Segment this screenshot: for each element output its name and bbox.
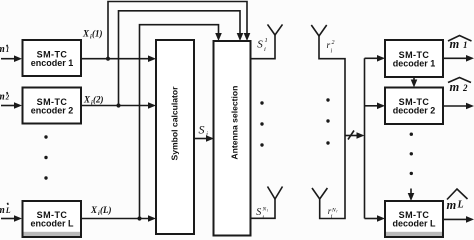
svg-text:m: m xyxy=(447,198,457,212)
SM-TC decoder L box xyxy=(385,201,443,237)
svg-text:m: m xyxy=(450,37,460,51)
node junction on line 1 xyxy=(106,57,110,61)
SM-TC encoder 2 box xyxy=(23,88,82,124)
svg-text:L: L xyxy=(5,206,11,215)
wire decoder1 to decoder2 arrow xyxy=(413,77,415,82)
wire antenna selection output Nt xyxy=(251,199,276,218)
Antenna selection box xyxy=(214,41,251,236)
svg-text:(2): (2) xyxy=(93,95,104,105)
svg-text:X: X xyxy=(83,95,91,105)
svg-text:N: N xyxy=(262,207,267,213)
wire encoder 1 output to symbol calculator xyxy=(81,58,150,60)
svg-text:L: L xyxy=(457,200,464,211)
svg-text:m: m xyxy=(450,80,460,94)
svg-text:Symbol calculator: Symbol calculator xyxy=(170,86,180,161)
ellipsis dots Rx xyxy=(326,98,329,101)
svg-text:decoder 1: decoder 1 xyxy=(393,59,436,69)
svg-text:r: r xyxy=(336,209,338,214)
wire distribution vertical xyxy=(364,58,366,218)
svg-text:decoder 2: decoder 2 xyxy=(393,106,436,116)
SM-TC encoder 1 box xyxy=(23,40,82,76)
label m2 hat output xyxy=(448,78,471,83)
antenna Rx Nr xyxy=(312,188,327,199)
antenna Tx Nt xyxy=(268,187,283,200)
wire antenna selection output 1 xyxy=(251,35,276,59)
SM-TC decoder 1 box xyxy=(385,40,443,77)
SM-TC decoder 2 box xyxy=(385,88,443,125)
wire decoder 2 output arrow xyxy=(443,105,468,107)
wire input arrow to encoder L xyxy=(1,218,16,220)
wire decoder L output arrow xyxy=(443,218,468,220)
SM-TC encoder L box xyxy=(23,201,82,237)
svg-text:i: i xyxy=(331,49,333,55)
node junction on line L xyxy=(137,216,141,220)
svg-text:(L): (L) xyxy=(100,205,112,215)
svg-text:1: 1 xyxy=(463,40,468,50)
wire encoder L output to symbol calculator xyxy=(81,218,150,220)
svg-text:Antenna selection: Antenna selection xyxy=(229,86,239,160)
svg-text:encoder L: encoder L xyxy=(30,219,74,229)
svg-text:m: m xyxy=(0,205,5,216)
wire arrow into decoder L top xyxy=(410,189,412,196)
Symbol calculator box xyxy=(156,40,194,234)
wire routed tap from line 1 over the top to antenna selection xyxy=(108,2,247,59)
node junction on line 2 xyxy=(116,103,120,107)
svg-text:2: 2 xyxy=(462,83,468,93)
ellipsis dots decoder column xyxy=(410,133,413,136)
svg-text:m: m xyxy=(0,92,5,103)
wire branch to decoder 2 xyxy=(365,105,380,107)
svg-text:i: i xyxy=(264,46,266,53)
svg-text:encoder 2: encoder 2 xyxy=(31,106,74,116)
svg-text:m: m xyxy=(0,44,5,55)
svg-text:S: S xyxy=(257,39,263,51)
wire input arrow to encoder 2 xyxy=(1,105,16,107)
svg-text:N: N xyxy=(331,208,336,214)
svg-text:1: 1 xyxy=(265,37,268,44)
svg-text:encoder 1: encoder 1 xyxy=(31,58,74,68)
wire bus to distribution line with slash xyxy=(345,135,359,137)
wire symbol calculator to antenna selection xyxy=(194,138,208,140)
wire decoder 1 output arrow xyxy=(443,57,468,59)
svg-text:2: 2 xyxy=(5,94,10,102)
label m1 hat output xyxy=(448,36,472,42)
wire encoder 2 output to symbol calculator xyxy=(81,105,150,107)
svg-text:decoder L: decoder L xyxy=(392,219,436,229)
svg-text:S: S xyxy=(256,207,261,218)
svg-text:2: 2 xyxy=(332,40,335,46)
label mL hat output xyxy=(447,189,468,200)
wire branch to decoder 1 xyxy=(365,57,380,59)
svg-text:1: 1 xyxy=(6,46,10,54)
wire routed tap from line L over the top to antenna selection xyxy=(140,25,219,219)
svg-text:X: X xyxy=(90,205,98,215)
antenna Rx 1 xyxy=(311,25,326,36)
antenna Tx 1 xyxy=(268,24,283,35)
svg-text:X: X xyxy=(82,29,90,39)
ellipsis dots left column xyxy=(44,135,47,138)
svg-text:t: t xyxy=(267,208,269,213)
wire branch to decoder L xyxy=(365,218,380,220)
wire Rx antenna 1 to receive bus xyxy=(319,36,345,219)
svg-text:(1): (1) xyxy=(92,29,103,39)
ellipsis dots Tx xyxy=(260,101,263,104)
wire routed tap from line 2 over the top to antenna selection xyxy=(119,11,241,106)
wire input arrow to encoder 1 xyxy=(1,58,16,60)
svg-text:S: S xyxy=(199,123,205,137)
